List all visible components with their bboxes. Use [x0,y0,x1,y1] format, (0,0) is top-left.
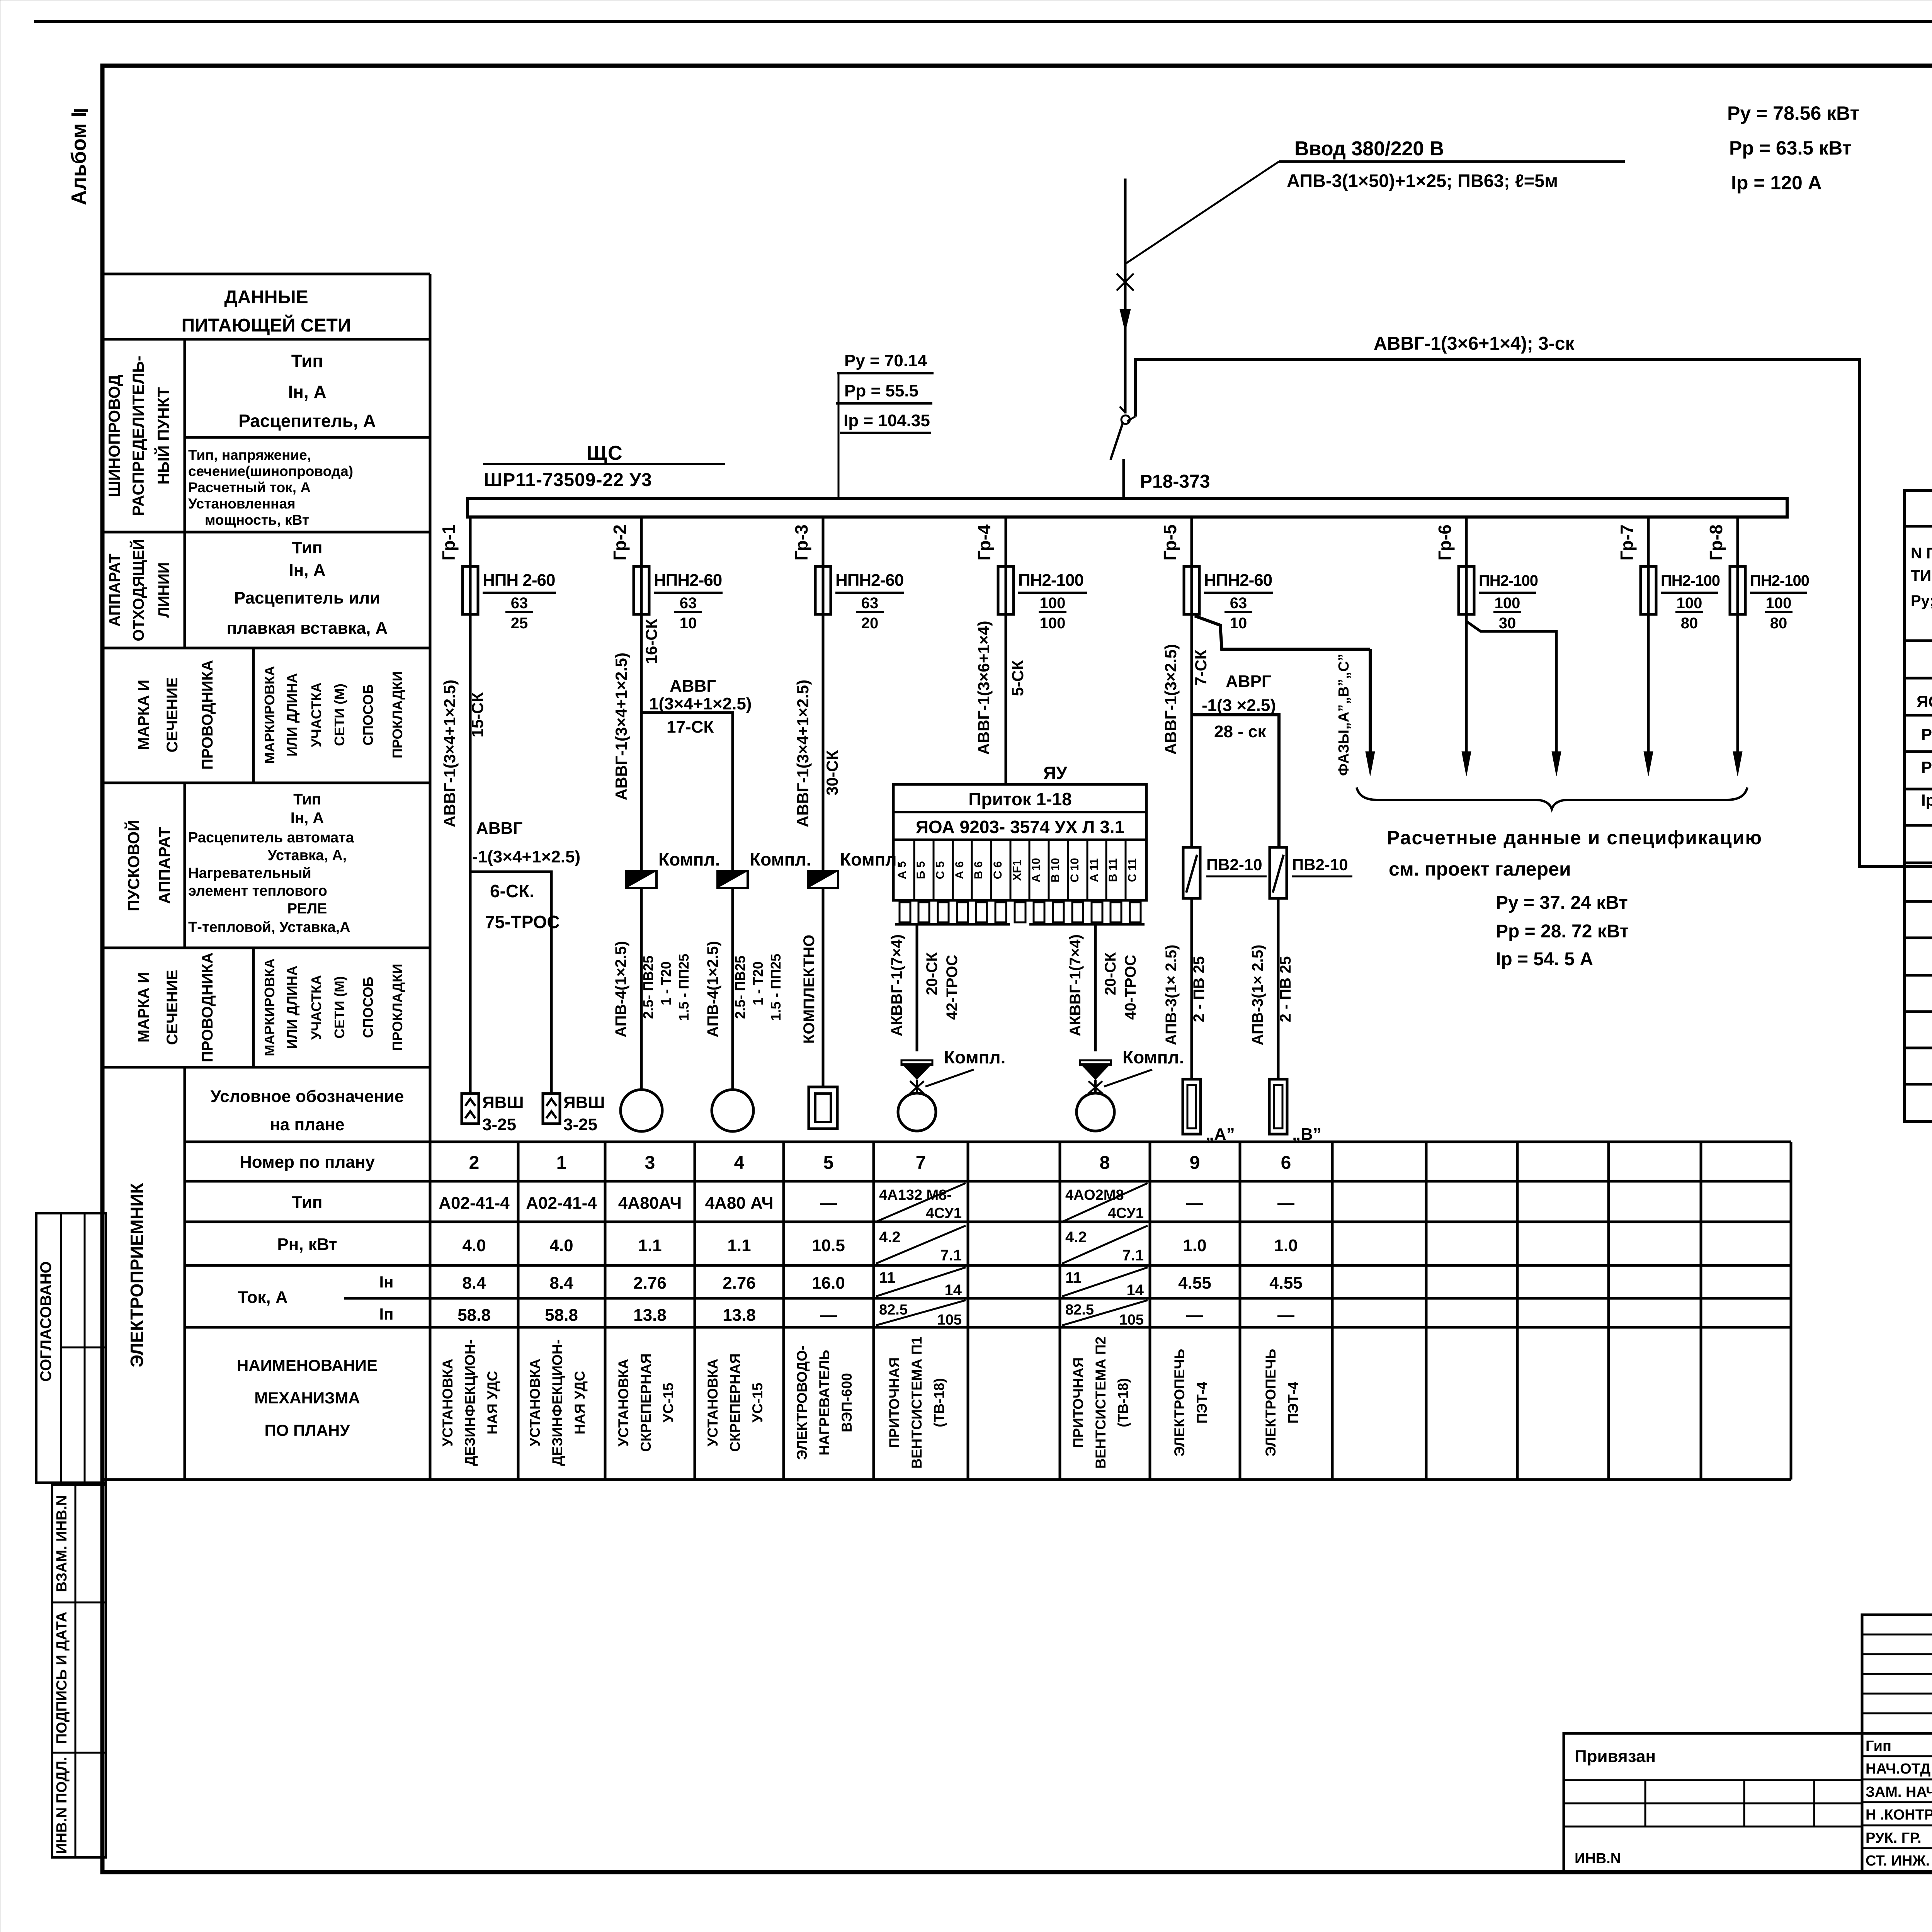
svg-text:Компл.: Компл. [1122,1047,1184,1067]
cable АПВ-3(1х2.5) to А [1163,898,1207,1079]
svg-text:6-СК.: 6-СК. [490,881,534,901]
lighting panel name ЩО [1917,656,1932,809]
svg-text:ДЕЗИНФЕКЦИОН-: ДЕЗИНФЕКЦИОН- [462,1339,478,1466]
box ЯВШ 3-25 no.1 [543,1093,605,1134]
svg-text:8.4: 8.4 [549,1274,573,1293]
svg-text:ЗАМ. НАЧ.: ЗАМ. НАЧ. [1866,1784,1932,1800]
svg-text:см. проект галереи: см. проект галереи [1389,858,1571,880]
svg-text:АВВГ: АВВГ [476,819,522,838]
svg-text:АКВВГ-1(7×4): АКВВГ-1(7×4) [1067,934,1084,1036]
svg-text:1 - Т20: 1 - Т20 [658,961,674,1005]
terminal box А [1183,1079,1235,1144]
disconnect switch ПВ2-10 А [1183,847,1267,898]
svg-text:20-СК: 20-СК [923,952,940,995]
svg-text:Тип: Тип [292,538,323,557]
bus ЩС label [483,442,725,490]
svg-text:ПРОКЛАДКИ: ПРОКЛАДКИ [389,671,405,758]
svg-text:Ру = 37. 24 кВт: Ру = 37. 24 кВт [1496,893,1628,913]
svg-text:РЕЛЕ: РЕЛЕ [287,901,327,917]
wire branch АВРГ-1(3х2.5) 28-ск [1192,672,1279,847]
svg-text:5-СК: 5-СК [1009,660,1027,696]
lighting panel headers [1911,498,1932,641]
svg-text:1.1: 1.1 [727,1236,751,1255]
svg-text:АВВГ-1(3×4+1×2.5): АВВГ-1(3×4+1×2.5) [440,680,459,827]
svg-text:„В”: „В” [1292,1125,1321,1144]
svg-text:—: — [1186,1306,1203,1325]
svg-text:А02-41-4: А02-41-4 [526,1194,597,1213]
svg-text:РАСПРЕДЕЛИТЕЛЬ-: РАСПРЕДЕЛИТЕЛЬ- [129,355,147,516]
svg-text:Приток 1-18: Приток 1-18 [968,789,1071,809]
svg-text:Компл.: Компл. [750,849,811,869]
svg-text:Расцепитель автомата: Расцепитель автомата [188,830,354,846]
wire Гр-4 cable АВВГ-1(3х6+1х4) 5-СК [975,614,1027,784]
svg-text:НПН2-60: НПН2-60 [835,571,903,590]
svg-text:НПН 2-60: НПН 2-60 [483,571,555,590]
svg-text:АВВГ-1(3×6+1×4): АВВГ-1(3×6+1×4) [975,621,993,755]
svg-text:СЕТИ (М): СЕТИ (М) [332,976,347,1039]
switch Р18-373 [1111,406,1210,499]
svg-text:ЯУ: ЯУ [1043,763,1068,783]
svg-text:2.5- ПВ25: 2.5- ПВ25 [640,956,656,1019]
svg-text:Нагревательный: Нагревательный [188,865,311,881]
svg-text:ИЛИ ДЛИНА: ИЛИ ДЛИНА [284,966,300,1049]
svg-text:N ПО ПЛАНУ: N ПО ПЛАНУ [1911,545,1932,562]
feeder drop Гр-3 with fuse НПН2-60 [791,517,904,632]
svg-text:ЭЛЕКТРОПЕЧЬ: ЭЛЕКТРОПЕЧЬ [1172,1349,1187,1457]
svg-text:Iр = 15.65: Iр = 15.65 [1921,791,1932,809]
svg-text:Гр-6: Гр-6 [1435,524,1455,560]
svg-text:Компл.: Компл. [944,1047,1005,1067]
svg-text:2.5- ПВ25: 2.5- ПВ25 [732,956,748,1019]
svg-text:Рр = 28. 72 кВт: Рр = 28. 72 кВт [1496,921,1629,942]
svg-text:2 - ПВ 25: 2 - ПВ 25 [1190,956,1207,1022]
svg-text:ПРОВОДНИКА: ПРОВОДНИКА [199,660,216,770]
feeder drop Гр-1 with fuse НПН 2-60 [439,517,556,632]
svg-text:В 11: В 11 [1107,858,1119,882]
svg-text:АВРГ: АВРГ [1226,672,1271,691]
svg-text:ЭЛЕКТРОВОДО-: ЭЛЕКТРОВОДО- [794,1345,810,1460]
disconnect switch ПВ2-10 В [1270,847,1352,898]
svg-text:РУК. ГР.: РУК. ГР. [1866,1830,1922,1846]
contactor Компл. 1 [626,849,720,888]
motor М3 [621,1090,662,1131]
svg-text:4СУ1: 4СУ1 [1108,1205,1144,1221]
svg-text:ШР11-73509-22 У3: ШР11-73509-22 У3 [484,470,652,490]
svg-text:ДЕЗИНФЕКЦИОН-: ДЕЗИНФЕКЦИОН- [549,1339,565,1466]
svg-text:7.1: 7.1 [940,1247,962,1264]
motor fan П1 [898,1093,936,1131]
svg-text:СПОСОБ: СПОСОБ [360,684,376,746]
svg-text:ПО ПЛАНУ: ПО ПЛАНУ [265,1421,350,1439]
svg-text:Ру; Рр(кВт): Ру; Рр(кВт) [1911,592,1932,609]
svg-text:СОГЛАСОВАНО: СОГЛАСОВАНО [37,1261,54,1381]
svg-text:Iр = 54. 5 А: Iр = 54. 5 А [1496,949,1593,969]
heater ВЭП-600 symbol [809,1087,837,1129]
wire branch to motor 4 [704,888,784,1090]
svg-text:10.5: 10.5 [812,1236,845,1255]
svg-text:4.0: 4.0 [462,1236,486,1255]
svg-text:ЯВШ: ЯВШ [563,1093,605,1112]
svg-text:ЭЛЕКТРОПЕЧЬ: ЭЛЕКТРОПЕЧЬ [1263,1349,1279,1457]
svg-text:4АО2М8: 4АО2М8 [1065,1187,1124,1203]
svg-text:НАИМЕНОВАНИЕ: НАИМЕНОВАНИЕ [237,1356,378,1374]
svg-text:С 11: С 11 [1126,858,1139,882]
svg-text:„А”: „А” [1206,1125,1235,1144]
svg-text:Т-тепловой, Уставка,А: Т-тепловой, Уставка,А [188,919,350,935]
svg-text:—: — [1277,1306,1294,1325]
svg-text:СПОСОБ: СПОСОБ [360,977,376,1038]
svg-text:ПРИТОЧНАЯ: ПРИТОЧНАЯ [1070,1357,1086,1448]
svg-text:ПН2-100: ПН2-100 [1661,572,1720,589]
svg-text:УСТАНОВКА: УСТАНОВКА [705,1359,721,1446]
svg-text:Р18-373: Р18-373 [1140,471,1210,492]
svg-text:1: 1 [556,1153,567,1173]
svg-text:5: 5 [823,1153,834,1173]
svg-text:Условное обозначение: Условное обозначение [211,1087,404,1106]
svg-text:82.5: 82.5 [879,1302,908,1318]
svg-text:75-ТРОС: 75-ТРОС [485,912,560,932]
svg-text:105: 105 [1119,1312,1144,1328]
svg-text:ПВ2-10: ПВ2-10 [1206,855,1262,874]
electro-receiver table data [439,1153,1303,1469]
svg-text:Рн, кВт: Рн, кВт [277,1235,337,1254]
svg-text:Гр-2: Гр-2 [610,524,630,560]
svg-text:АВВГ: АВВГ [670,677,716,696]
title block names table [1862,1733,1932,1872]
svg-text:Установленная: Установленная [188,496,296,512]
svg-text:ПУСКОВОЙ: ПУСКОВОЙ [124,820,143,911]
svg-text:УСТАНОВКА: УСТАНОВКА [440,1359,456,1446]
svg-text:НАЯ УДС: НАЯ УДС [572,1371,588,1435]
svg-text:ПН2-100: ПН2-100 [1479,572,1538,589]
svg-text:Расчетный ток, А: Расчетный ток, А [188,480,311,495]
svg-text:4.55: 4.55 [1178,1274,1211,1293]
terminal box В [1269,1079,1321,1144]
svg-text:13.8: 13.8 [723,1306,756,1325]
svg-text:6: 6 [1281,1153,1291,1173]
svg-text:СЕЧЕНИЕ: СЕЧЕНИЕ [164,677,181,753]
svg-text:АППАРАТ: АППАРАТ [106,553,123,626]
svg-text:100: 100 [1495,595,1520,612]
contactor Компл. 2 [718,849,811,888]
svg-text:Тип: Тип [293,791,321,808]
svg-text:Тип: Тип [292,1193,323,1212]
svg-text:15-СК: 15-СК [468,692,486,737]
svg-text:ПЭТ-4: ПЭТ-4 [1285,1381,1301,1423]
svg-text:С 6: С 6 [992,861,1004,879]
svg-text:30-СК: 30-СК [823,750,841,795]
svg-text:ИЛИ ДЛИНА: ИЛИ ДЛИНА [284,673,300,757]
input feeder 380/220 line [1117,162,1279,413]
svg-text:Гр-4: Гр-4 [974,524,994,561]
svg-text:НАГРЕВАТЕЛЬ: НАГРЕВАТЕЛЬ [816,1350,832,1455]
svg-text:ЩС: ЩС [587,442,623,464]
svg-text:СТ. ИНЖ.: СТ. ИНЖ. [1866,1853,1930,1869]
cable АПВ-3(1х2.5) to В [1249,898,1294,1079]
svg-text:Б 5: Б 5 [915,861,927,879]
brace under gallery feeders [1357,787,1747,809]
svg-text:ШИНОПРОВОД: ШИНОПРОВОД [105,374,123,497]
svg-text:ДАННЫЕ: ДАННЫЕ [224,287,308,308]
svg-text:2.76: 2.76 [723,1274,756,1293]
svg-text:Рр = 55.5: Рр = 55.5 [844,381,918,400]
svg-text:Ру = 8.63: Ру = 8.63 [1921,725,1932,743]
svg-text:УСТАНОВКА: УСТАНОВКА [616,1359,631,1446]
svg-text:ВЕНТСИСТЕМА П1: ВЕНТСИСТЕМА П1 [909,1337,925,1469]
svg-text:16-СК: 16-СК [642,619,660,664]
svg-text:4СУ1: 4СУ1 [926,1205,962,1221]
wire Гр-6 arrows down [1462,614,1561,776]
svg-text:82.5: 82.5 [1065,1302,1094,1318]
title block Привязан box [1564,1733,1862,1872]
wire Гр-5 main drop [1162,614,1210,847]
svg-text:Iр = 120 А: Iр = 120 А [1731,172,1822,194]
svg-text:80: 80 [1770,615,1787,632]
svg-text:-1(3 ×2.5): -1(3 ×2.5) [1202,696,1276,715]
svg-text:20: 20 [861,615,879,632]
svg-text:В 10: В 10 [1049,858,1062,882]
svg-text:МАРКА И: МАРКА И [135,680,152,750]
svg-text:3-25: 3-25 [482,1115,516,1134]
svg-text:9: 9 [1190,1153,1200,1173]
svg-text:ЯВШ: ЯВШ [482,1093,524,1112]
load data Ру 78.56 [1727,102,1859,194]
svg-text:Рр = 63.5 кВт: Рр = 63.5 кВт [1729,137,1852,159]
svg-text:100: 100 [1040,615,1066,632]
branch cable АВВГ-1(3x6+1x4) to lighting panel [1127,333,1932,867]
svg-text:Iн: Iн [379,1273,393,1291]
wire Гр-1 split loop to ЯВШ boxes [470,872,560,1094]
svg-text:МАРКИРОВКА: МАРКИРОВКА [262,666,277,764]
svg-text:Расчетные данные и специфик: Расчетные данные и спецификацию [1387,827,1762,849]
svg-text:8.4: 8.4 [462,1274,486,1293]
svg-text:КОМПЛЕКТНО: КОМПЛЕКТНО [801,935,818,1044]
svg-text:80: 80 [1681,615,1698,632]
svg-text:АПВ-4(1×2.5): АПВ-4(1×2.5) [704,941,721,1037]
svg-text:Уставка, А,: Уставка, А, [268,847,347,864]
svg-text:16.0: 16.0 [812,1274,845,1293]
svg-text:Iн, А: Iн, А [289,561,325,580]
lighting panel table grid [1905,491,1932,1122]
svg-text:А 6: А 6 [953,861,966,879]
svg-text:ПОДПИСЬ И ДАТА: ПОДПИСЬ И ДАТА [54,1612,70,1744]
wire Гр-2 cable АВВГ-1(3х4+1х2.5) [612,614,752,871]
svg-text:АВВГ-1(3×6+1×4); 3-ск: АВВГ-1(3×6+1×4); 3-ск [1374,333,1575,354]
svg-text:1.0: 1.0 [1274,1236,1298,1255]
wire Гр-8 arrow [1733,614,1742,776]
svg-text:НПН2-60: НПН2-60 [654,571,722,590]
svg-text:17-СК: 17-СК [667,718,714,736]
svg-text:Компл.: Компл. [658,849,720,869]
feeder drop Гр-6 with fuse ПН2-100 [1435,517,1538,632]
svg-text:Рр = 8.0: Рр = 8.0 [1921,758,1932,776]
svg-text:СЕЧЕНИЕ: СЕЧЕНИЕ [164,970,181,1045]
svg-text:сечение(шинопровода): сечение(шинопровода) [188,463,353,479]
svg-text:7: 7 [916,1153,926,1173]
svg-text:2 - ПВ 25: 2 - ПВ 25 [1277,956,1294,1022]
svg-text:58.8: 58.8 [457,1306,491,1325]
wire phases А В С with arrow [1336,649,1375,776]
left header table texts [105,287,405,1439]
svg-text:ЯОА 9203- 3574 УХ Л 3.1: ЯОА 9203- 3574 УХ Л 3.1 [916,817,1124,837]
svg-text:40-ТРОС: 40-ТРОС [1122,955,1139,1020]
svg-text:1.5 - ПП25: 1.5 - ПП25 [676,954,692,1021]
svg-text:105: 105 [937,1312,962,1328]
wire branch to motor 3 [612,888,692,1090]
svg-text:42-ТРОС: 42-ТРОС [944,955,961,1020]
motor М4 [712,1090,753,1131]
svg-text:АПВ-3(1× 2.5): АПВ-3(1× 2.5) [1163,945,1180,1046]
svg-text:2.76: 2.76 [633,1274,667,1293]
svg-text:Гр-5: Гр-5 [1160,524,1180,560]
svg-text:4.55: 4.55 [1269,1274,1303,1293]
contactor Компл. 3 [808,849,901,888]
svg-text:ИНВ.N ПОДЛ.: ИНВ.N ПОДЛ. [54,1757,70,1854]
svg-text:63: 63 [680,595,697,612]
feeder drop Гр-2 with fuse НПН2-60 [610,517,723,632]
motor fan П2 [1077,1093,1114,1131]
lighting panel feed switch ПВ3-100 [1863,853,1932,902]
svg-text:ПЭТ-4: ПЭТ-4 [1194,1381,1210,1423]
feeder drop Гр-7 with fuse ПН2-100 [1617,517,1720,632]
svg-text:4.2: 4.2 [879,1229,901,1246]
box ЯВШ 3-25 no.2 [462,1093,524,1134]
svg-text:11: 11 [879,1269,895,1286]
svg-text:30: 30 [1499,615,1516,632]
svg-text:1.5 - ПП25: 1.5 - ПП25 [768,954,784,1021]
svg-text:—: — [820,1306,837,1325]
svg-text:АПВ-3(1×50)+1×25; ПВ63; ℓ=5м: АПВ-3(1×50)+1×25; ПВ63; ℓ=5м [1287,170,1558,191]
svg-text:Гр-3: Гр-3 [791,524,811,560]
wire Гр-7 arrow [1644,614,1653,776]
svg-text:мощность, кВт: мощность, кВт [205,512,309,528]
album label [67,111,90,205]
svg-text:А 11: А 11 [1088,858,1100,882]
svg-text:Гр-7: Гр-7 [1617,524,1637,560]
svg-text:УС-15: УС-15 [750,1383,765,1422]
svg-text:20-СК: 20-СК [1102,952,1119,995]
svg-text:Тип, напряжение,: Тип, напряжение, [188,447,311,463]
title block revision table [1862,1615,1932,1733]
svg-text:28 - ск: 28 - ск [1214,722,1267,741]
feeder drop Гр-8 with fuse ПН2-100 [1706,517,1809,632]
svg-text:С 10: С 10 [1068,858,1081,882]
svg-text:плавкая вставка, А: плавкая вставка, А [227,619,388,638]
svg-text:3: 3 [645,1153,655,1173]
svg-text:13.8: 13.8 [633,1306,667,1325]
svg-text:АПВ-4(1×2.5): АПВ-4(1×2.5) [612,941,629,1037]
svg-text:Ток, А: Ток, А [238,1288,287,1307]
wire branch 7-СК to gallery [1195,616,1370,649]
svg-text:ЛИНИИ: ЛИНИИ [155,562,172,617]
svg-text:7-СК: 7-СК [1192,650,1210,686]
svg-text:—: — [1186,1194,1203,1213]
svg-text:Ввод 380/220 В: Ввод 380/220 В [1294,138,1444,160]
svg-text:100: 100 [1677,595,1702,612]
svg-text:на плане: на плане [270,1115,344,1134]
svg-text:(ТВ-18): (ТВ-18) [931,1378,947,1427]
svg-text:ВЗАМ. ИНВ.N: ВЗАМ. ИНВ.N [54,1495,70,1592]
cable АКВВГ-1(7х4) to П1 [888,924,961,1051]
svg-text:Альбом I: Альбом I [67,112,90,205]
svg-text:УЧАСТКА: УЧАСТКА [308,975,324,1040]
note Расчетные данные [1387,827,1762,969]
svg-text:Ру = 78.56 кВт: Ру = 78.56 кВт [1727,102,1859,124]
svg-text:УЧАСТКА: УЧАСТКА [308,682,324,747]
svg-text:4.2: 4.2 [1065,1229,1087,1246]
svg-text:7.1: 7.1 [1122,1247,1144,1264]
svg-text:1 - Т20: 1 - Т20 [750,961,766,1005]
svg-text:—: — [1277,1194,1294,1213]
svg-text:4А80 АЧ: 4А80 АЧ [705,1194,774,1213]
svg-text:ХF1: ХF1 [1011,859,1024,881]
svg-text:элемент теплового: элемент теплового [188,883,327,899]
svg-text:ПРОКЛАДКИ: ПРОКЛАДКИ [389,964,405,1051]
svg-text:НПН2-60: НПН2-60 [1204,571,1272,590]
svg-text:Тип: Тип [291,351,323,371]
svg-text:14: 14 [945,1282,962,1299]
svg-text:МАРКА И: МАРКА И [135,972,152,1043]
svg-text:АППАРАТ: АППАРАТ [155,827,173,904]
svg-text:ТИП, СХЕМА: ТИП, СХЕМА [1911,567,1932,584]
svg-text:УСТАНОВКА: УСТАНОВКА [527,1359,543,1446]
svg-text:—: — [820,1194,837,1213]
svg-text:2: 2 [469,1153,480,1173]
svg-text:3-25: 3-25 [563,1115,597,1134]
svg-text:АВВГ-1(3×4+1×2.5): АВВГ-1(3×4+1×2.5) [612,653,630,800]
left header table grid [102,274,430,1480]
svg-text:8: 8 [1100,1153,1110,1173]
svg-text:Расцепитель, А: Расцепитель, А [238,411,376,431]
svg-text:АВВГ-1(3×4+1×2.5): АВВГ-1(3×4+1×2.5) [794,680,812,827]
svg-text:(ТВ-18): (ТВ-18) [1115,1378,1131,1427]
svg-text:25: 25 [511,615,528,632]
svg-text:Номер по плану: Номер по плану [240,1153,375,1172]
svg-text:Iн, А: Iн, А [291,810,324,827]
svg-text:Гр-1: Гр-1 [439,524,459,560]
svg-text:АКВВГ-1(7×4): АКВВГ-1(7×4) [888,934,905,1036]
margin stamp Взам/Подпись/Инв [52,1485,106,1857]
svg-text:ЭЛЕКТРОПРИЕМНИК: ЭЛЕКТРОПРИЕМНИК [127,1182,147,1367]
svg-text:АВВГ-1(3×2.5): АВВГ-1(3×2.5) [1162,644,1180,755]
svg-text:ОТХОДЯЩЕЙ: ОТХОДЯЩЕЙ [129,539,147,641]
svg-text:МЕХАНИЗМА: МЕХАНИЗМА [254,1389,360,1407]
svg-text:100: 100 [1040,595,1066,612]
svg-text:4: 4 [734,1153,745,1173]
svg-text:НАЯ УДС: НАЯ УДС [485,1371,500,1435]
feeder data block Ру 70.14 [836,351,934,499]
svg-text:58.8: 58.8 [545,1306,578,1325]
svg-text:4.0: 4.0 [549,1236,573,1255]
svg-text:-1(3×4+1×2.5): -1(3×4+1×2.5) [472,847,580,866]
plug symbol Компл. П1 [901,1047,1005,1094]
svg-text:14: 14 [1127,1282,1144,1299]
svg-text:Расцепитель или: Расцепитель или [234,588,380,607]
bus bar ЩС [468,498,1787,517]
svg-text:НАЧ.ОТД: НАЧ.ОТД [1866,1761,1930,1777]
svg-text:Iп: Iп [379,1305,393,1323]
svg-text:СЕТИ (М): СЕТИ (М) [332,684,347,746]
svg-text:11: 11 [1065,1269,1082,1286]
svg-text:А 10: А 10 [1030,858,1043,882]
wire Гр-3 КОМПЛЕКТНО to heater [794,614,841,1087]
svg-text:1.0: 1.0 [1183,1236,1206,1255]
cable АКВВГ-1(7х4) to П2 [1067,924,1139,1051]
svg-text:63: 63 [511,595,528,612]
svg-text:АПВ-3(1× 2.5): АПВ-3(1× 2.5) [1249,945,1266,1046]
control box ЯУ Приток 1-18 [893,763,1146,924]
svg-text:Н .КОНТР.: Н .КОНТР. [1866,1807,1932,1823]
